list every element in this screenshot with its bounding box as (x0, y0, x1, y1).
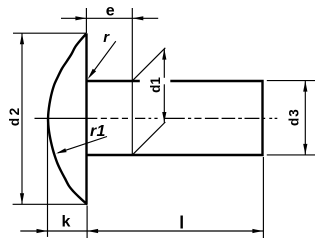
d3 arrow up (303, 81, 307, 92)
k/l shared arrow (pointing left) (87, 229, 98, 233)
svg-text:d3: d3 (287, 108, 302, 126)
svg-text:d2: d2 (7, 106, 22, 127)
shank outline (87, 81, 263, 155)
svg-text:e: e (106, 2, 115, 19)
r leader arrow (88, 69, 97, 79)
k arrow (outside, pointing right) (37, 229, 48, 233)
d2 bottom extension line (13, 203, 87, 205)
l arrow (pointing right) (252, 229, 263, 233)
svg-text:l: l (179, 213, 184, 233)
l right extension line (262, 157, 264, 238)
d3 bottom extension line (267, 154, 315, 156)
r leader line (91, 41, 116, 75)
d3 top extension line (267, 80, 315, 82)
d1 bottom oblique extension line (132, 122, 166, 156)
e arrow (outside, pointing left at right ext) (132, 16, 143, 20)
svg-text:r1: r1 (90, 123, 106, 140)
label d1 (140, 78, 171, 85)
k and l dimension line (20, 230, 263, 232)
d1 dimension line (163, 49, 165, 123)
d2 arrow down (20, 193, 24, 204)
k right / l left extension line (86, 206, 88, 239)
d3 arrow down (303, 144, 307, 155)
e right extension line (d1 section line through shank) (131, 8, 133, 155)
svg-text:d1: d1 (148, 77, 163, 93)
k left extension line (from dome apex) (47, 119, 49, 237)
svg-text:k: k (61, 214, 70, 231)
e arrow (outside, pointing right at left ext) (75, 16, 86, 20)
d2 top extension line (13, 32, 87, 34)
d1 top oblique extension line (132, 48, 165, 81)
centerline (rivet axis, dash-dot) (35, 117, 278, 119)
r1 leader line (58, 137, 107, 153)
e dimension line (61, 17, 158, 19)
d3 dimension line (304, 81, 306, 155)
r1 leader arrow (56, 148, 67, 153)
e left extension line (85, 8, 87, 33)
d2 dimension line (21, 33, 23, 204)
d1 arrow up (162, 49, 166, 60)
d2 arrow up (20, 33, 24, 44)
rivet head outline (dome arc + flat face) (48, 33, 86, 204)
d1 arrow down (162, 112, 166, 123)
